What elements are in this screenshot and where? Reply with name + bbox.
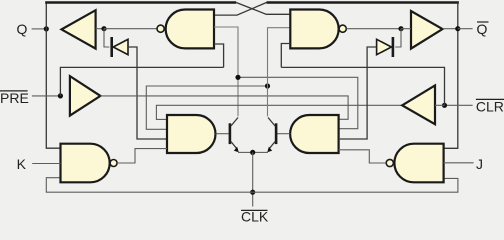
node CLK emitter junction: [250, 150, 255, 155]
wire CLK vertical: [252, 152, 254, 206]
node Q-bar terminal label: [477, 21, 489, 37]
wire Q feedback left border: [46, 3, 60, 149]
wire left NAND top input to cross diagonal B: [214, 3, 267, 16]
node B junction (right NAND output node): [398, 26, 403, 31]
node PRE junction: [58, 93, 63, 98]
node J terminal label: [476, 156, 483, 172]
wire buffer U2 input: [96, 28, 104, 30]
wire PRE stub: [32, 95, 61, 97]
bubble U7 output: [110, 160, 117, 167]
diode D2 (cathode bar right, pointing right): [377, 37, 393, 57]
wire left NAND output to node A: [104, 28, 157, 30]
diode D1 wire from node A: [104, 29, 109, 47]
wire diode D2 to slave gate input 3: [339, 47, 377, 139]
buffer U10 (Q-bar output buffer, pointing right): [411, 11, 443, 49]
diode D2 wire from node B: [395, 29, 401, 47]
wire K gate output to master gate input 4: [117, 149, 167, 163]
and U5 (master AND gate, facing right): [167, 115, 215, 153]
wire J gate output to slave gate input 4: [339, 150, 387, 163]
diode D1 (cathode bar left, pointing left): [112, 37, 128, 57]
buffer U9 (CLR buffer, pointing left): [402, 85, 435, 124]
wire Q1 emitter to CLK node: [238, 151, 253, 153]
node CLK rail junction: [250, 190, 255, 195]
svg-text:J: J: [476, 156, 483, 172]
node Q junction: [44, 26, 49, 31]
wire PRE buffer output to slave gate input 1: [100, 96, 348, 119]
svg-text:Q: Q: [477, 21, 488, 37]
wire Q-bar feedback right border: [444, 3, 458, 149]
wire Q-bar stub: [458, 28, 473, 30]
wire PRE rail to left NAND: [60, 67, 223, 96]
node Q-bar junction: [455, 26, 460, 31]
bubble U8 output: [386, 159, 393, 166]
node CLK terminal label: [241, 209, 269, 225]
wire cross diagonal A (Q side down to right NAND input): [236, 3, 290, 15]
and U6 (slave AND gate, facing left): [290, 115, 338, 153]
node A junction (left NAND output node): [101, 26, 106, 31]
nand U7 (K input NAND, facing right): [61, 144, 110, 183]
svg-text:CLK: CLK: [241, 209, 269, 224]
wire CLR rail to right NAND: [281, 67, 444, 105]
node right collector junction: [265, 83, 270, 88]
wire buffer U10 output: [443, 28, 458, 30]
svg-text:K: K: [17, 156, 27, 172]
wire K stub: [32, 163, 60, 165]
wire U1 middle input to collector line: [214, 27, 238, 116]
wire CLR buffer output to master gate input 1: [156, 105, 402, 119]
wire U4 output to node B: [346, 28, 401, 30]
transistor Q1 (left steering transistor): [230, 118, 239, 153]
nand U8 (J input NAND, facing left): [394, 144, 443, 183]
nand U1 (left latch NAND, facing left): [166, 10, 214, 49]
node K terminal label: [17, 156, 27, 172]
svg-text:PRE: PRE: [0, 90, 29, 106]
node left collector junction: [235, 75, 240, 80]
buffer U2 (Q output buffer, pointing left): [62, 10, 96, 48]
bubble U4 output: [339, 25, 346, 32]
wire right collector to master gate input 2: [146, 86, 267, 129]
node Q terminal label: [17, 21, 28, 37]
wire left collector to slave gate input 2: [238, 77, 358, 128]
wire CLR stub: [445, 104, 473, 106]
wire top border left (Q to cross): [45, 1, 236, 3]
wire bottom clock rail: [46, 178, 458, 193]
wire master gate output to Q1 base: [216, 133, 229, 135]
wire Q2 emitter to CLK node: [253, 151, 268, 153]
transistor Q2 (right steering transistor): [267, 118, 276, 153]
wire Q stub: [32, 28, 47, 30]
wire J stub: [444, 162, 474, 164]
wire right collector line: [268, 28, 291, 117]
wire slave gate output to Q2 base: [277, 133, 290, 135]
wire top border right (cross to Q-bar): [267, 1, 459, 3]
node PRE terminal label: [0, 90, 29, 106]
svg-text:Q: Q: [17, 21, 28, 37]
wire CLR buffer input: [435, 104, 445, 106]
svg-text:CLR: CLR: [476, 98, 504, 114]
wire U4 bottom input from CLR rail: [281, 44, 290, 68]
wire buffer U10 input: [401, 28, 411, 30]
wire U1 bottom input from PRE rail: [214, 44, 224, 67]
wire diode D1 to master gate input 3: [128, 47, 167, 139]
nand U4 (right latch NAND, facing right): [290, 10, 338, 49]
node CLR terminal label: [476, 98, 504, 114]
node CLR junction: [442, 103, 447, 108]
bubble U1 output: [157, 25, 164, 32]
buffer U3 (PRE buffer, pointing right): [70, 76, 101, 116]
